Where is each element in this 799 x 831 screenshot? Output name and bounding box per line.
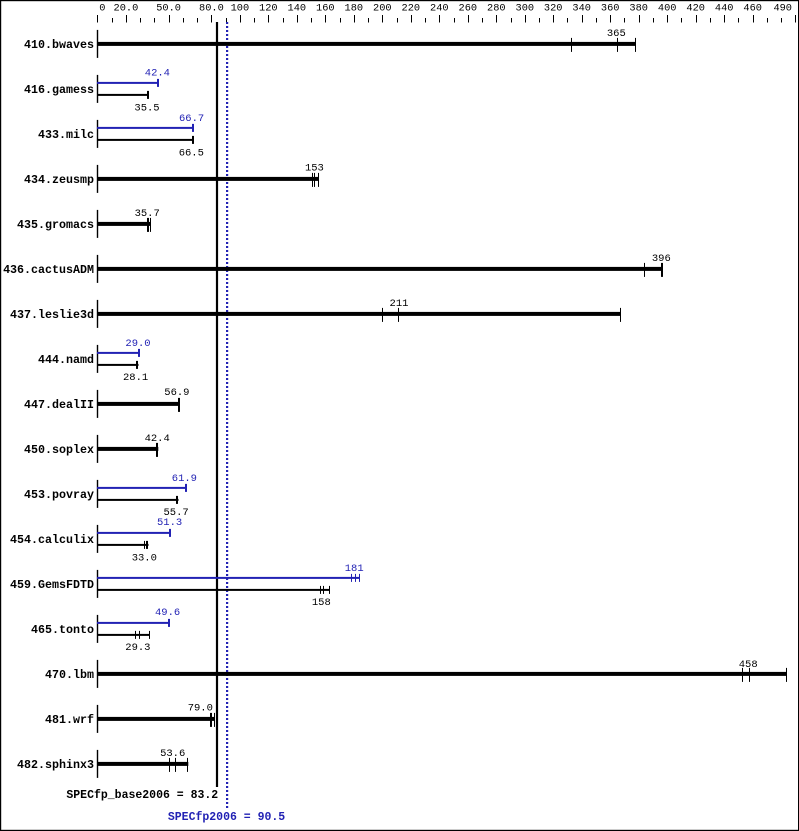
benchmark row 454.calculix <box>10 517 182 564</box>
454.calculix axis origin tick <box>97 525 98 553</box>
svg-text:360: 360 <box>601 3 620 15</box>
svg-text:153: 153 <box>305 162 324 174</box>
416.gamess base run marks <box>147 91 149 99</box>
svg-text:20.0: 20.0 <box>114 3 139 15</box>
svg-text:440: 440 <box>715 3 734 15</box>
svg-text:35.5: 35.5 <box>134 102 159 114</box>
benchmark row 450.soplex <box>24 433 170 463</box>
svg-text:396: 396 <box>652 253 671 265</box>
benchmark row 435.gromacs <box>17 208 160 238</box>
svg-text:458: 458 <box>739 659 758 671</box>
435.gromacs base result bar <box>97 222 151 226</box>
svg-text:420: 420 <box>686 3 705 15</box>
454.calculix peak run marks <box>169 529 171 537</box>
svg-text:181: 181 <box>345 563 364 575</box>
svg-text:100: 100 <box>231 3 250 15</box>
benchmark row 437.leslie3d <box>10 298 621 328</box>
434.zeusmp base result bar <box>97 177 319 181</box>
465.tonto base run marks <box>135 631 150 639</box>
benchmark row 410.bwaves <box>24 28 636 58</box>
svg-text:33.0: 33.0 <box>132 552 157 564</box>
benchmark row 444.namd <box>38 338 151 384</box>
459.GemsFDTD base run marks <box>320 586 330 594</box>
447.dealII run marks <box>178 398 180 412</box>
453.povray base run marks <box>176 496 178 504</box>
482.sphinx3 run marks <box>169 758 188 772</box>
447.dealII base result bar <box>97 402 180 406</box>
416.gamess axis origin tick <box>97 75 98 103</box>
svg-text:434.zeusmp: 434.zeusmp <box>24 173 94 187</box>
434.zeusmp axis origin tick <box>97 165 98 193</box>
svg-text:29.3: 29.3 <box>125 642 150 654</box>
benchmark row 433.milc <box>38 113 204 160</box>
svg-text:220: 220 <box>402 3 421 15</box>
453.povray axis origin tick <box>97 480 98 508</box>
svg-text:300: 300 <box>516 3 535 15</box>
433.milc base run marks <box>192 136 194 144</box>
svg-text:482.sphinx3: 482.sphinx3 <box>17 758 94 772</box>
436.cactusADM axis origin tick <box>97 255 98 283</box>
svg-text:42.4: 42.4 <box>145 68 170 80</box>
447.dealII axis origin tick <box>97 390 98 418</box>
svg-text:444.namd: 444.namd <box>38 353 94 367</box>
465.tonto peak result bar <box>97 622 170 624</box>
svg-text:56.9: 56.9 <box>164 387 189 399</box>
benchmark row 453.povray <box>24 473 197 519</box>
svg-text:450.soplex: 450.soplex <box>24 443 94 457</box>
svg-text:380: 380 <box>629 3 648 15</box>
444.namd peak run marks <box>138 349 140 357</box>
465.tonto base result bar <box>97 634 150 636</box>
svg-text:453.povray: 453.povray <box>24 488 94 502</box>
svg-text:400: 400 <box>658 3 677 15</box>
433.milc base result bar <box>97 139 194 141</box>
416.gamess peak result bar <box>97 82 159 84</box>
436.cactusADM base result bar <box>97 267 663 271</box>
svg-text:SPECfp2006 = 90.5: SPECfp2006 = 90.5 <box>168 811 285 824</box>
444.namd base result bar <box>97 364 139 366</box>
444.namd peak result bar <box>97 352 140 354</box>
svg-text:470.lbm: 470.lbm <box>45 668 94 682</box>
svg-text:460: 460 <box>743 3 762 15</box>
svg-text:66.7: 66.7 <box>179 113 204 125</box>
svg-text:51.3: 51.3 <box>157 517 182 529</box>
453.povray peak run marks <box>185 484 187 492</box>
benchmark row 459.GemsFDTD <box>10 563 364 609</box>
svg-text:29.0: 29.0 <box>125 338 150 350</box>
470.lbm run marks <box>742 668 787 682</box>
SPECfp2006 mean line (90.5, dotted) <box>226 22 228 808</box>
svg-text:140: 140 <box>288 3 307 15</box>
416.gamess peak run marks <box>157 79 159 87</box>
459.GemsFDTD peak run marks <box>351 574 360 582</box>
435.gromacs axis origin tick <box>97 210 98 238</box>
svg-text:465.tonto: 465.tonto <box>31 623 94 637</box>
437.leslie3d base result bar <box>97 312 621 316</box>
454.calculix base run marks <box>144 541 148 549</box>
482.sphinx3 axis origin tick <box>97 750 98 778</box>
433.milc peak result bar <box>97 127 194 129</box>
482.sphinx3 base result bar <box>97 762 188 766</box>
450.soplex axis origin tick <box>97 435 98 463</box>
svg-text:28.1: 28.1 <box>123 372 148 384</box>
410.bwaves axis origin tick <box>97 30 98 58</box>
svg-text:459.GemsFDTD: 459.GemsFDTD <box>10 578 94 592</box>
svg-text:280: 280 <box>487 3 506 15</box>
410.bwaves base result bar <box>97 42 636 46</box>
SPECfp_base2006 mean line (83.2) <box>216 22 218 787</box>
svg-text:454.calculix: 454.calculix <box>10 533 94 547</box>
svg-text:365: 365 <box>607 28 626 40</box>
434.zeusmp run marks <box>312 173 319 187</box>
459.GemsFDTD peak result bar <box>97 577 360 579</box>
svg-text:158: 158 <box>312 597 331 609</box>
svg-text:200: 200 <box>373 3 392 15</box>
benchmark row 482.sphinx3 <box>17 748 188 778</box>
benchmark row 447.dealII <box>24 387 189 418</box>
svg-text:211: 211 <box>390 298 409 310</box>
svg-text:53.6: 53.6 <box>160 748 185 760</box>
453.povray peak result bar <box>97 487 187 489</box>
svg-text:120: 120 <box>259 3 278 15</box>
444.namd base run marks <box>136 361 138 369</box>
svg-text:447.dealII: 447.dealII <box>24 398 94 412</box>
svg-text:436.cactusADM: 436.cactusADM <box>3 263 94 277</box>
433.milc peak run marks <box>192 124 194 132</box>
437.leslie3d run marks <box>382 308 621 322</box>
svg-text:416.gamess: 416.gamess <box>24 83 94 97</box>
444.namd axis origin tick <box>97 345 98 373</box>
481.wrf base result bar <box>97 717 215 721</box>
416.gamess base result bar <box>97 94 149 96</box>
svg-text:49.6: 49.6 <box>155 607 180 619</box>
410.bwaves run marks <box>571 38 636 52</box>
benchmark row 416.gamess <box>24 68 170 115</box>
470.lbm base result bar <box>97 672 787 676</box>
top axis major ticks <box>97 15 796 23</box>
benchmark row 436.cactusADM <box>3 253 671 283</box>
svg-text:481.wrf: 481.wrf <box>45 713 94 727</box>
svg-text:320: 320 <box>544 3 563 15</box>
svg-text:SPECfp_base2006 = 83.2: SPECfp_base2006 = 83.2 <box>66 789 218 802</box>
459.GemsFDTD axis origin tick <box>97 570 98 598</box>
svg-text:61.9: 61.9 <box>172 473 197 485</box>
svg-text:437.leslie3d: 437.leslie3d <box>10 308 94 322</box>
svg-text:240: 240 <box>430 3 449 15</box>
459.GemsFDTD base result bar <box>97 589 330 591</box>
svg-text:160: 160 <box>316 3 335 15</box>
437.leslie3d axis origin tick <box>97 300 98 328</box>
svg-text:433.milc: 433.milc <box>38 128 94 142</box>
465.tonto peak run marks <box>168 619 170 627</box>
svg-text:410.bwaves: 410.bwaves <box>24 38 94 52</box>
svg-text:490: 490 <box>773 3 792 15</box>
433.milc axis origin tick <box>97 120 98 148</box>
436.cactusADM run marks <box>644 263 663 277</box>
svg-text:260: 260 <box>459 3 478 15</box>
svg-text:340: 340 <box>572 3 591 15</box>
450.soplex run marks <box>156 443 158 457</box>
benchmark row 465.tonto <box>31 607 180 654</box>
svg-text:50.0: 50.0 <box>156 3 181 15</box>
470.lbm axis origin tick <box>97 660 98 688</box>
svg-text:79.0: 79.0 <box>188 703 213 715</box>
481.wrf run marks <box>210 713 215 727</box>
svg-text:80.0: 80.0 <box>199 3 224 15</box>
435.gromacs run marks <box>147 218 151 232</box>
465.tonto axis origin tick <box>97 615 98 643</box>
svg-text:435.gromacs: 435.gromacs <box>17 218 94 232</box>
450.soplex base result bar <box>97 447 158 451</box>
svg-text:180: 180 <box>345 3 364 15</box>
benchmark row 434.zeusmp <box>24 162 324 193</box>
benchmark row 470.lbm <box>45 659 787 688</box>
481.wrf axis origin tick <box>97 705 98 733</box>
top axis minor ticks <box>112 18 782 23</box>
top axis scale labels <box>99 3 792 15</box>
454.calculix base result bar <box>97 544 149 546</box>
svg-text:35.7: 35.7 <box>135 208 160 220</box>
svg-text:66.5: 66.5 <box>179 148 204 160</box>
svg-text:42.4: 42.4 <box>145 433 170 445</box>
454.calculix peak result bar <box>97 532 171 534</box>
svg-text:0: 0 <box>99 3 105 15</box>
benchmark row 481.wrf <box>45 703 215 733</box>
453.povray base result bar <box>97 499 179 501</box>
